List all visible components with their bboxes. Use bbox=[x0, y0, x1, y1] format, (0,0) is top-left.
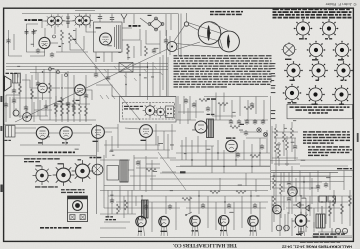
wire mid horizontals bbox=[98, 124, 176, 152]
resistor R23 bbox=[329, 206, 332, 216]
capacitor C5 bbox=[36, 48, 40, 54]
antenna ANT bbox=[121, 14, 127, 23]
note: dial cord stringing instructions paragraph bbox=[174, 55, 272, 88]
capacitor column group 3 bbox=[287, 172, 291, 214]
capacitor C14 bbox=[144, 204, 148, 210]
capacitor CX1 crossed bbox=[257, 128, 261, 132]
resistor R13 bbox=[218, 103, 228, 106]
wire dial cord runs bbox=[174, 13, 230, 50]
resistor bank R7 bbox=[55, 104, 58, 114]
capacitor CX2 crossed bbox=[263, 132, 267, 136]
socket P3 phono motor bbox=[143, 103, 158, 118]
socket V11 6SK7 bottom view bbox=[320, 19, 339, 39]
resistor R2 bbox=[69, 33, 72, 43]
wire tube pin fans bbox=[138, 225, 305, 236]
transformer T6 interstage (dark) bbox=[207, 119, 214, 138]
resistor chain upper-right extra 2 bbox=[286, 136, 289, 165]
resistor chain RC-B bbox=[283, 124, 286, 156]
tube V17 6SC7 bbox=[226, 140, 238, 152]
resistor R1 bbox=[61, 30, 64, 40]
pulley P1 tuning shaft bbox=[184, 22, 188, 26]
capacitor C26 bbox=[184, 98, 188, 104]
label 6F6 pair bbox=[38, 142, 43, 143]
wire right-mid verticals bbox=[276, 160, 352, 196]
capacitor C18 bbox=[253, 203, 257, 209]
resistor R10 bbox=[73, 106, 76, 116]
wire dial cord long run 2 bbox=[15, 49, 168, 122]
ground GND1 bbox=[298, 228, 304, 235]
trimmer S2 2nd IF bbox=[53, 163, 75, 186]
capacitor C37 above box bbox=[110, 16, 114, 22]
capacitor C9 bbox=[4, 102, 8, 108]
wire bottom-right curtain verticals bbox=[272, 196, 330, 236]
tube V1 6SK7 RF amp bbox=[39, 37, 50, 48]
transformer T5 (dark vertical) bbox=[120, 160, 128, 182]
wire above-box taps bbox=[100, 14, 112, 23]
trimmer rosette A3 bbox=[73, 14, 87, 28]
socket X7 6H6 bbox=[309, 61, 328, 81]
wire dial area left boundary bbox=[180, 14, 182, 58]
resistor R14 bbox=[244, 107, 254, 110]
capacitor stack C1 bbox=[66, 14, 70, 29]
label OSC bbox=[96, 27, 102, 28]
transformer T4 IF (hatched box) bbox=[5, 126, 16, 142]
wire cable hatch marks bbox=[94, 66, 163, 99]
resistor R19 vertical bbox=[333, 196, 336, 206]
trimmer S1 1st IF bbox=[33, 165, 52, 185]
wire left riser group bbox=[27, 24, 56, 52]
capacitor C27 bbox=[192, 102, 196, 108]
socket P4 phono pickup bbox=[155, 106, 167, 118]
diagonal cord line lower bbox=[158, 152, 186, 190]
junction dots bbox=[42, 66, 148, 88]
capacitor C29 on bus bbox=[106, 75, 110, 81]
capacitor C21 bbox=[324, 182, 328, 188]
capacitor C34 bbox=[253, 119, 257, 125]
lamp socket LS1 on bus bbox=[49, 68, 52, 71]
lamp bridge DL1 (diamond) bbox=[148, 17, 164, 31]
switch SW1 bbox=[185, 212, 192, 216]
capacitor C13b bbox=[244, 130, 248, 136]
capacitor C8 bbox=[12, 98, 16, 104]
wire right-bottom mesh bbox=[272, 176, 352, 236]
capacitor chain upper-right 3 bbox=[293, 138, 297, 160]
capacitor C35 bbox=[261, 119, 265, 125]
capacitor CL8 bbox=[66, 101, 70, 107]
wire center-mid extra density bbox=[180, 132, 266, 192]
note: tube caption MODEL S-40 bbox=[38, 152, 41, 154]
resistor R11 bbox=[79, 104, 82, 114]
tube V6 6F6G bbox=[60, 127, 72, 139]
wire filament bus ladder bbox=[6, 64, 168, 73]
resistor RL7 bbox=[61, 97, 64, 107]
potentiometer VOL1 bbox=[13, 108, 19, 116]
node label B5 bbox=[180, 171, 186, 173]
capacitor CL4 bbox=[36, 81, 40, 87]
capacitor CL0 bbox=[12, 88, 16, 94]
wire speaker to bus bbox=[6, 72, 92, 122]
label 455 KC OUTPUT bbox=[25, 19, 28, 21]
resistor R6 bbox=[145, 46, 148, 56]
page label 14-22 (left margin, vertical) bbox=[0, 96, 2, 192]
junction dots central bbox=[191, 152, 260, 167]
resistor R25 bbox=[125, 200, 128, 210]
label DIAL bbox=[90, 157, 93, 159]
wire mid-left extra bbox=[100, 134, 176, 176]
record player section boundary bbox=[120, 97, 177, 123]
resistor R28 bbox=[199, 99, 209, 102]
tube V5 6F6G bbox=[36, 127, 48, 139]
resistor R27 bbox=[146, 169, 156, 172]
resistor RL3 bbox=[31, 89, 34, 99]
transformer T3 output bbox=[13, 74, 21, 84]
label R22 bbox=[58, 101, 63, 102]
capacitor CL10 bbox=[84, 93, 88, 99]
capacitor C7 bbox=[164, 38, 168, 44]
note: alignment instructions text block bbox=[273, 8, 352, 18]
capacitor C20 bbox=[316, 184, 320, 190]
resistor RL5 bbox=[49, 83, 52, 93]
wire resistor bank leads bbox=[34, 96, 96, 122]
grommet circle G1 bbox=[53, 35, 56, 38]
wire mid interconnects bbox=[30, 28, 88, 56]
speaker SP1 bbox=[5, 76, 12, 91]
label B+ bus bbox=[337, 168, 342, 169]
socket X6 6F6 bbox=[284, 61, 303, 81]
resistor R16 bbox=[182, 198, 192, 201]
power transformer T7 bbox=[316, 214, 325, 228]
capacitor C33 bbox=[245, 119, 249, 125]
wire below-paragraph mesh bbox=[178, 100, 232, 124]
capacitor C12 bbox=[250, 102, 254, 108]
resistor chain RC-C bbox=[291, 122, 294, 152]
tube V10b 6SK7 bbox=[159, 216, 169, 232]
capacitor CL6 bbox=[54, 102, 58, 108]
note: right margin vertical marks bbox=[357, 133, 359, 142]
lamp socket LS3 on bus bbox=[65, 74, 68, 77]
lamp socket LS2 on bus bbox=[57, 71, 60, 74]
tube V2 6SA7 converter bbox=[100, 33, 112, 45]
label R4 bbox=[73, 39, 77, 40]
resistor ladder right-bottom group 1 bbox=[273, 172, 276, 222]
diagonal pointer line bbox=[71, 36, 140, 120]
wire top-left interconnects bbox=[42, 11, 96, 33]
resistor R21 vertical bbox=[349, 196, 352, 206]
capacitor C2 bbox=[25, 29, 29, 35]
wire bottom band horizontals bbox=[100, 191, 352, 238]
potentiometer VOL2 volume control bbox=[23, 109, 32, 121]
note: run note blob bbox=[300, 241, 340, 242]
trimmer rosette A1 bbox=[45, 14, 58, 27]
svg-text:THE HALLICRAFTERS CO.: THE HALLICRAFTERS CO. bbox=[173, 242, 237, 247]
junction dots right-bottom bbox=[273, 175, 322, 202]
capacitor C36 above box bbox=[98, 15, 102, 21]
wire mid-bottom extra density bbox=[100, 190, 136, 228]
trimmer rosette A2 bbox=[51, 14, 64, 27]
wire lower-left verticals bbox=[104, 155, 160, 192]
trimmer S3 OSC bbox=[72, 159, 94, 182]
coil L1 hatched core bbox=[115, 25, 121, 49]
note: service note text block bbox=[303, 131, 350, 144]
label T2 bbox=[97, 57, 101, 58]
wire bottom verticals bbox=[104, 186, 350, 232]
wire right boundary vertical bbox=[270, 96, 272, 190]
capacitor C24 bbox=[260, 144, 264, 150]
tube V11 6SK7 bbox=[190, 216, 200, 232]
note: trimmer sub labels bbox=[35, 186, 58, 187]
socket X8 6J5 bbox=[334, 61, 353, 81]
note: alignment caption bbox=[24, 158, 60, 162]
wire dial divider vertical bbox=[178, 14, 180, 56]
tube V4 6SQ7 bbox=[75, 85, 86, 96]
tube V13 6F6G bbox=[248, 216, 258, 232]
wire top bus bbox=[22, 13, 178, 15]
capacitor C17 bbox=[227, 203, 231, 209]
resistor R5 bbox=[127, 44, 130, 54]
note: socket caption box bbox=[287, 104, 353, 119]
resistor R12 bbox=[85, 106, 88, 116]
resistor R24 bbox=[117, 204, 120, 214]
label V17 bbox=[226, 137, 235, 138]
resistor chain upper-right extra 1 bbox=[278, 143, 281, 166]
panel front view FP1 bbox=[68, 196, 88, 222]
socket X11 80 bbox=[332, 85, 351, 105]
note: component value labels scatter bbox=[17, 30, 331, 213]
tube V12 6SQ7 bbox=[219, 216, 229, 232]
capacitor C16 bbox=[201, 203, 205, 209]
bracket BR1 bbox=[107, 166, 119, 181]
capacitor C10 bbox=[44, 104, 48, 110]
resistor R15 bbox=[230, 126, 240, 129]
capacitor C22 bbox=[110, 198, 114, 204]
capacitor C11 bbox=[206, 106, 210, 112]
transformer T8 top rectangles bbox=[319, 196, 336, 202]
tube V8 6SQ7 det bbox=[140, 125, 153, 138]
socket X9 6V6 bbox=[283, 84, 302, 104]
resistor ladder group 2 bbox=[280, 172, 283, 218]
label R30 bbox=[207, 114, 210, 115]
rectifier V14 5Y3 socket bbox=[292, 212, 310, 235]
label C31 bbox=[76, 100, 80, 101]
scan noise overlay bbox=[0, 0, 1, 1]
note: panel small caption bbox=[61, 189, 85, 193]
record changer box RC1 (dashed) bbox=[123, 103, 175, 120]
capacitor CL2 bbox=[24, 105, 28, 111]
wire central lower grid bbox=[104, 130, 270, 186]
label C13 bbox=[59, 46, 61, 47]
wire divider rule bbox=[4, 155, 96, 157]
wire top-middle interconnects bbox=[96, 14, 171, 62]
socket X4 6SK7 bbox=[307, 41, 326, 61]
wire divider vertical bbox=[96, 124, 98, 214]
wire extended buses right bbox=[180, 161, 352, 182]
resistor chain RC-A bbox=[275, 124, 278, 160]
note: socket caption (bottom views of tube sockets) bbox=[290, 106, 350, 113]
wire paragraph left border verticals bbox=[163, 30, 170, 96]
lamp LP1 bbox=[92, 164, 103, 175]
oscillator shield box B1 bbox=[94, 22, 123, 52]
wire upper-right mesh extra bbox=[272, 126, 300, 164]
tube V9 6K8 output bbox=[136, 216, 146, 232]
wire central verticals below paragraph bbox=[176, 93, 268, 123]
dial drum D1 bbox=[198, 22, 221, 45]
transformer T9 dark vertical bbox=[142, 200, 149, 218]
note: dial drive caption bbox=[210, 11, 243, 15]
socket V10 6SA7 bottom view bbox=[294, 19, 313, 39]
wire center verticals bbox=[96, 57, 176, 100]
wire left edge chain bbox=[9, 30, 23, 56]
trimmer rosette A4 bbox=[79, 14, 93, 28]
label 6SK7 bbox=[93, 141, 98, 142]
capacitor C38 left bbox=[6, 38, 10, 44]
resistor R26 bbox=[250, 155, 260, 158]
note: second service note bbox=[308, 146, 352, 156]
tube V3 6H6 bbox=[38, 83, 48, 93]
connector PL1 bbox=[166, 106, 174, 118]
tube V7 6SK7 IF amp bbox=[92, 126, 105, 139]
label 6SQ7 bbox=[141, 140, 147, 141]
note: left margin model list bbox=[271, 63, 276, 119]
label W.F.L. bbox=[129, 25, 132, 27]
pulley P2 idler bbox=[167, 42, 177, 52]
capacitor C6 bbox=[152, 48, 156, 54]
wire ladder taps bbox=[36, 66, 108, 84]
note: bottom-right model note bbox=[313, 233, 345, 237]
resistor RL9 bbox=[73, 100, 76, 110]
capacitor C15 bbox=[168, 204, 172, 210]
wire B+ bus pair bbox=[271, 171, 353, 173]
capacitor row under line: C30 bbox=[229, 119, 233, 125]
wire upper band horizontals bbox=[4, 125, 92, 146]
svg-text:© John F. Rider: © John F. Rider bbox=[324, 2, 356, 6]
tube V15 6J5 bbox=[195, 121, 207, 133]
plug PL2 AC line bbox=[332, 228, 348, 234]
capacitor C32 bbox=[237, 119, 241, 125]
label C20 bbox=[148, 15, 152, 16]
capacitor C3 bbox=[32, 29, 36, 35]
wire left-mid vertical chains bbox=[12, 70, 90, 121]
label 6F6 second bbox=[62, 142, 65, 143]
label WFL2 bbox=[207, 98, 216, 100]
capacitor C25 bbox=[136, 160, 140, 166]
coil box L2 with X bbox=[119, 63, 133, 73]
note: bottom-left caption blob bbox=[40, 227, 81, 229]
capacitor C4 bbox=[50, 52, 54, 58]
svg-text:HALLICRAFTERS PAGE 14-21, 14-2: HALLICRAFTERS PAGE 14-21, 14-22 bbox=[282, 244, 352, 248]
capacitor C23 bbox=[236, 152, 240, 158]
resistor R18 bbox=[236, 191, 246, 194]
socket X5 6SQ7 bbox=[333, 41, 352, 61]
diode D2 bbox=[302, 205, 312, 211]
resistor R8 bbox=[61, 106, 64, 116]
diode D1 bbox=[293, 202, 304, 208]
tube V16 6H6 small bbox=[273, 205, 282, 214]
resistor R17 bbox=[210, 191, 220, 194]
socket X10 5Y3 bbox=[306, 85, 325, 105]
capacitor C19 electrolytic bbox=[276, 225, 289, 231]
tube V18 6H6 bbox=[288, 187, 298, 197]
label A7 bbox=[240, 124, 245, 125]
resistor R20 vertical bbox=[341, 204, 344, 214]
socket X3 trimmer top view bbox=[282, 42, 297, 60]
resistor R9 bbox=[67, 104, 70, 114]
capacitor C28 on bus bbox=[94, 72, 98, 78]
junction dots bottom bbox=[141, 195, 334, 202]
resistor RL1 bbox=[19, 84, 22, 94]
label BAND SPREAD bbox=[106, 216, 117, 220]
label PM SPKR bbox=[6, 73, 10, 74]
dial drum D2 bbox=[219, 31, 240, 52]
